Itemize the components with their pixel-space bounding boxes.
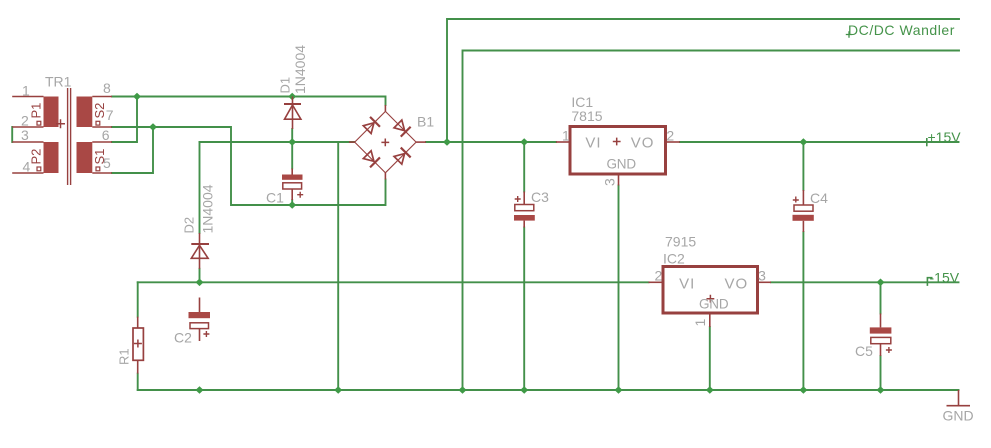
capacitor C1	[282, 169, 303, 201]
net label origin cross DC/DC	[846, 31, 852, 37]
TR1 origin cross	[56, 119, 65, 128]
svg-text:P2: P2	[29, 149, 44, 165]
TR1 winding P1	[44, 97, 59, 128]
svg-text:C4: C4	[810, 190, 828, 206]
svg-text:P1: P1	[29, 103, 44, 119]
svg-text:7915: 7915	[665, 233, 696, 249]
wire D2 bottom node	[199, 269, 201, 283]
B1 diode lower-right	[393, 148, 411, 166]
TR1 pin 1	[12, 96, 43, 98]
wire top gnd line	[463, 51, 960, 391]
TR1 pin 3	[12, 141, 43, 143]
svg-text:2: 2	[655, 268, 663, 284]
node B1 output	[443, 138, 451, 146]
wire net1 top AC	[112, 97, 386, 106]
wire bottom gnd rail	[138, 389, 959, 391]
TR1 pin 6 stub	[92, 141, 112, 143]
svg-text:C1: C1	[266, 189, 284, 205]
node C5 top	[877, 279, 885, 287]
wire net2 center tap to bridge bottom	[153, 127, 386, 205]
node C1 bottom	[288, 201, 296, 209]
node rail C4	[799, 386, 807, 394]
svg-text:4: 4	[23, 159, 31, 175]
node D1 bottom	[288, 138, 296, 146]
svg-text:1N4004: 1N4004	[292, 45, 308, 94]
TR1 core	[67, 88, 69, 185]
svg-text:+15V: +15V	[928, 129, 962, 145]
wire C4 top	[802, 142, 804, 190]
capacitor C3	[514, 192, 535, 228]
svg-text:D1: D1	[278, 77, 293, 94]
wire IC1 gnd down	[618, 186, 620, 391]
IC1 pin 2 stub	[666, 141, 680, 143]
transformer TR1	[12, 88, 112, 185]
IC1 box	[570, 127, 666, 175]
svg-text:VI: VI	[679, 275, 695, 292]
resistor R1	[133, 317, 143, 374]
capacitor C4	[793, 190, 814, 232]
wire B1 out to IC1	[426, 141, 556, 143]
TR1 winding S1	[77, 142, 93, 173]
svg-text:-15V: -15V	[930, 269, 960, 285]
node C4 top	[799, 138, 807, 146]
node rail x462	[459, 386, 467, 394]
svg-text:TR1: TR1	[45, 74, 72, 90]
TR1 winding P2	[44, 142, 59, 173]
node rail C5	[877, 386, 885, 394]
TR1 polarity square S2	[96, 121, 100, 125]
node C3 top	[520, 138, 528, 146]
svg-text:8: 8	[103, 80, 111, 96]
node rail C2	[196, 386, 204, 394]
svg-text:GND: GND	[699, 296, 729, 311]
IC2 pin 2 stub	[649, 281, 664, 283]
wire C5 bottom	[880, 356, 882, 390]
svg-text:VO: VO	[725, 275, 749, 292]
svg-text:D2: D2	[182, 217, 197, 234]
IC1 pin 1 stub	[556, 141, 570, 143]
B1 diamond	[355, 111, 416, 172]
wire C3 top	[523, 142, 525, 192]
wire C1 top	[291, 142, 293, 169]
wire C3 bottom	[523, 228, 525, 391]
regulator IC2	[649, 267, 772, 328]
TR1 pin 8 stub	[92, 96, 112, 98]
TR1 pin 4	[12, 172, 43, 174]
TR1 winding S2	[77, 97, 93, 128]
node pin8/net1	[133, 93, 141, 101]
supply tick -15V	[927, 278, 931, 285]
wire top supply + line	[447, 19, 959, 142]
node rail C3	[520, 386, 528, 394]
svg-text:3: 3	[758, 268, 766, 284]
node rail x338	[334, 386, 342, 394]
svg-text:7815: 7815	[571, 108, 602, 124]
bridge rectifier B1	[349, 105, 426, 180]
capacitor C5	[870, 314, 892, 357]
ground symbol	[947, 390, 971, 407]
svg-text:7: 7	[106, 107, 114, 123]
wire C1 bottom	[291, 200, 293, 205]
wire pin8 to pin6	[112, 97, 137, 143]
svg-text:C2: C2	[174, 330, 192, 346]
TR1 pin 5 stub	[92, 172, 112, 174]
node D2/C2	[196, 279, 204, 287]
B1 pin stub top	[384, 105, 386, 111]
svg-text:B1: B1	[417, 113, 434, 129]
IC1 plus	[613, 138, 621, 146]
wire D-net horizontal	[200, 141, 355, 143]
node rail IC2 gnd	[706, 386, 714, 394]
B1 pin stub right	[416, 141, 426, 143]
svg-text:2: 2	[666, 128, 674, 144]
B1 diode upper-right	[393, 119, 411, 137]
supply tick +15V	[926, 139, 928, 146]
IC1 pin 3 stub	[618, 174, 620, 186]
svg-text:VI: VI	[585, 134, 601, 151]
IC2 plus	[707, 295, 715, 303]
wire trafo pin2-pin3 link	[11, 127, 13, 142]
diode D2	[191, 233, 209, 269]
wire negative rail to IC2	[138, 281, 649, 283]
node rail IC1 gnd	[615, 386, 623, 394]
node D1 top	[288, 93, 296, 101]
B1 plus	[381, 139, 389, 147]
svg-text:GND: GND	[943, 408, 974, 424]
wire D2 top	[199, 142, 201, 233]
B1 pin stub left	[349, 141, 355, 143]
wire +15V rail	[680, 141, 959, 143]
svg-text:VO: VO	[631, 134, 655, 151]
node pin7/net2	[149, 123, 157, 131]
IC2 pin 3 stub	[758, 281, 772, 283]
svg-text:3: 3	[21, 127, 29, 143]
svg-text:6: 6	[102, 127, 110, 143]
diode D1	[284, 97, 301, 130]
svg-text:R1: R1	[117, 348, 132, 365]
svg-text:1: 1	[562, 128, 570, 144]
svg-text:1: 1	[692, 319, 708, 327]
TR1 pin 7 stub	[92, 126, 112, 128]
wire D1 bottom	[291, 129, 293, 142]
IC2 box	[663, 267, 758, 314]
svg-text:C3: C3	[531, 189, 549, 205]
wire R1 bottom	[137, 374, 139, 390]
B1 pin stub bottom	[384, 173, 386, 180]
svg-text:GND: GND	[607, 156, 637, 171]
svg-text:3: 3	[602, 178, 618, 186]
svg-text:C5: C5	[855, 343, 873, 359]
svg-text:1: 1	[22, 82, 30, 98]
op-amp U1 placeholder: regulator IC1	[556, 127, 680, 186]
wire C4 bottom	[802, 232, 804, 390]
wire IC2 out -15V rail	[771, 281, 959, 283]
IC2 pin 1 stub	[709, 313, 711, 327]
svg-text:5: 5	[103, 155, 111, 171]
wire C5 top	[880, 282, 882, 313]
wire R1 top	[137, 282, 139, 316]
TR1 polarity square S1	[96, 167, 100, 171]
svg-text:IC2: IC2	[663, 250, 685, 266]
svg-text:DC/DC Wandler: DC/DC Wandler	[848, 22, 955, 38]
wire D-net to gnd rail	[337, 142, 339, 390]
B1 diode upper-left	[362, 117, 380, 135]
TR1 polarity square P2	[37, 167, 41, 171]
B1 diode lower-left	[362, 150, 380, 168]
svg-text:1N4004: 1N4004	[200, 184, 216, 233]
wire pin7 to pin5	[112, 127, 153, 173]
wire IC2 gnd down	[709, 327, 711, 390]
capacitor C2	[189, 298, 211, 342]
TR1 pin 2	[12, 126, 43, 128]
TR1 polarity square P1	[37, 121, 41, 125]
